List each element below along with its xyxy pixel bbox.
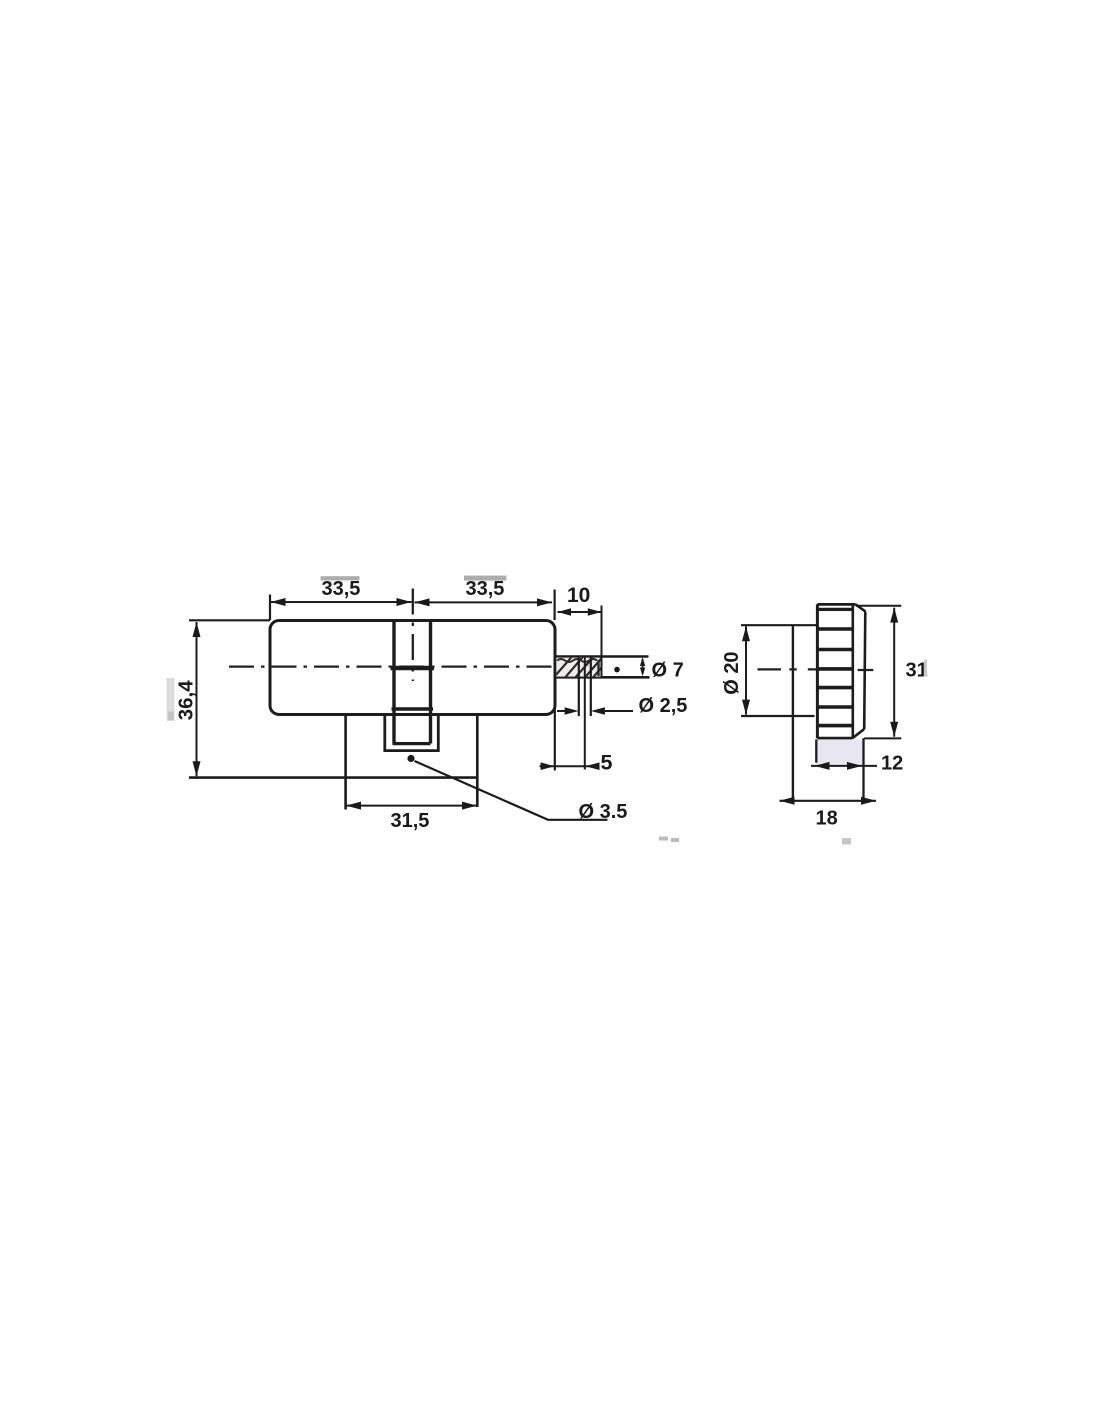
knob neck top line — [741, 624, 817, 626]
dimension 33,5 left : arrows — [271, 598, 286, 606]
svg-text:Ø 7: Ø 7 — [652, 659, 684, 681]
dimension 10 : right extension line — [601, 606, 603, 678]
dimension 33,5 right : extension line — [553, 590, 555, 621]
knob axis center line — [758, 668, 874, 671]
svg-text:Ø 2,5: Ø 2,5 — [639, 695, 688, 717]
follower channel right wall — [429, 621, 432, 744]
knurl ridge 6 — [817, 705, 852, 709]
svg-text:10: 10 — [567, 584, 590, 607]
stem top line — [555, 655, 649, 658]
smudge left of 36,4 label — [167, 678, 175, 721]
smudge right of 31 — [924, 660, 927, 677]
dimension 31 : line — [893, 608, 895, 737]
dimension 31,5 : line — [346, 805, 477, 807]
dimension 18 : line — [780, 800, 877, 802]
horizontal center line (axis) — [229, 665, 570, 667]
dimension diam 2,5 : left line and arrow — [557, 710, 565, 712]
svg-text:31,5: 31,5 — [391, 810, 430, 832]
smudge above right 33,5 — [464, 576, 506, 581]
dimension 31,5 : arrows — [346, 802, 361, 810]
dimension 36,4 : arrows — [193, 622, 201, 637]
follower mid line — [391, 666, 435, 671]
axis dot in stem — [614, 667, 620, 673]
knurl ridge 7 — [817, 724, 852, 728]
pin hole center line — [584, 657, 586, 770]
knob right edge — [864, 612, 865, 729]
dimension 33,5 left : line — [271, 601, 412, 603]
stray mark pair below leader — [659, 837, 668, 841]
svg-text:33,5: 33,5 — [322, 578, 361, 600]
svg-text:Ø 20: Ø 20 — [721, 651, 743, 694]
knob stem fill — [816, 739, 863, 765]
knob bottom line — [817, 737, 852, 740]
knurl ridge 3 — [817, 648, 852, 652]
dimension 12 : arrows — [815, 762, 830, 770]
knurl ridge 5 — [817, 686, 852, 690]
knob neck left wall — [792, 626, 794, 801]
dimension 33,5 right : line — [415, 601, 553, 603]
dimension 33,5 left : extension line — [269, 595, 271, 621]
knob stem right wall — [862, 738, 864, 801]
svg-text:36,4: 36,4 — [175, 680, 198, 720]
cam housing bottom line — [189, 776, 477, 779]
dimension diam 20 : line — [745, 626, 747, 714]
svg-text:33,5: 33,5 — [466, 578, 505, 600]
plug housing box — [385, 715, 439, 751]
knob face left wall — [816, 604, 819, 738]
cam housing left wall — [344, 715, 347, 810]
plug inner bottom — [393, 742, 431, 745]
knob top line — [817, 603, 855, 606]
stem hatch — [556, 658, 601, 677]
cylinder body — [270, 621, 555, 715]
dimension diam 20 : arrows — [742, 626, 750, 641]
dimension 12 : line — [811, 765, 877, 767]
dimension 33,5 right : arrows — [415, 598, 430, 606]
smudge above left 33,5 — [321, 576, 360, 580]
dimension 5 : arrows — [541, 762, 555, 770]
dimension diam 7 : arrows — [642, 659, 644, 674]
knob neck bottom line — [741, 715, 815, 717]
cam housing right wall — [476, 715, 479, 807]
knob top chamfer — [856, 604, 866, 611]
svg-text:18: 18 — [816, 807, 838, 829]
stray mark right — [842, 838, 851, 845]
knurl ridge 4 — [817, 667, 852, 671]
dimension 36,4 : line — [196, 622, 198, 776]
knurl ridge 1 — [817, 608, 852, 611]
follower channel left wall — [392, 621, 395, 744]
dimension 5 : line — [540, 765, 600, 767]
dimension 31 : bottom extension line — [864, 737, 901, 739]
pin hole left wall — [578, 657, 580, 716]
svg-text:5: 5 — [601, 751, 613, 775]
vertical center line — [412, 589, 414, 682]
stem bottom line — [555, 676, 650, 679]
cam hole dot — [407, 755, 414, 762]
dimension 10 : arrows — [558, 608, 572, 616]
svg-text:Ø 3.5: Ø 3.5 — [579, 801, 628, 823]
dimension 31 : top extension line — [856, 605, 902, 607]
leader line to diam 3.5 — [415, 761, 608, 820]
dimension 10 : line — [558, 611, 602, 613]
dimension 36,4 : top extension line — [189, 619, 270, 621]
dimension 31 : arrows — [890, 608, 898, 623]
knurl ridge 2 — [817, 627, 852, 631]
knob face right wall — [851, 604, 854, 738]
dimension 5 : left extension line — [554, 678, 556, 771]
dimension diam 2,5 : right line and arrow — [605, 710, 633, 712]
pin hole right wall — [590, 657, 592, 716]
knob bottom chamfer — [852, 729, 864, 738]
follower lower line — [392, 707, 434, 711]
knob stem left wall — [815, 739, 817, 762]
dimension 18 : arrows — [780, 797, 795, 805]
svg-text:12: 12 — [881, 752, 903, 774]
